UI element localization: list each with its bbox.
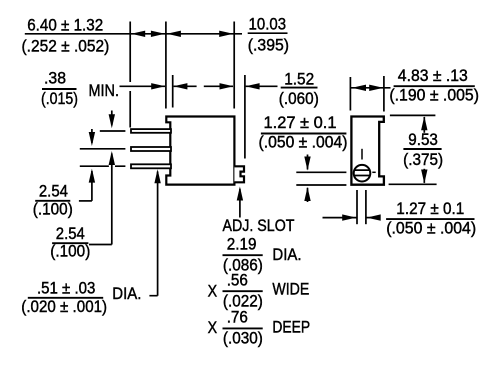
svg-text:(.030): (.030) — [223, 329, 263, 348]
wire 2.54 lower leader elbow — [89, 244, 112, 246]
wire .51 fraction bar — [28, 297, 103, 299]
4.83 dim right arrow — [369, 85, 383, 91]
wire 9.53 up-arrow tail — [423, 117, 425, 133]
lead 1 (top) — [131, 129, 171, 133]
2.54 lower dim up arrow — [109, 151, 115, 165]
.51 DIA leader arrow — [154, 169, 160, 183]
wire lower 2.54 fraction bar — [52, 242, 88, 244]
svg-text:10.03: 10.03 — [249, 15, 287, 34]
2.54 upper dim up arrow — [89, 169, 95, 183]
svg-text:6.40 ± 1.32: 6.40 ± 1.32 — [27, 16, 103, 35]
wire dim row2 (".38 MIN." line to B) — [120, 85, 166, 87]
svg-text:MIN.: MIN. — [89, 81, 120, 100]
node ext line A (lead end plane) — [129, 22, 131, 128]
svg-text:2.54: 2.54 — [56, 224, 85, 243]
svg-text:9.53: 9.53 — [408, 130, 438, 149]
svg-text:(.395): (.395) — [248, 36, 289, 55]
node ext line B (body left plane) — [165, 22, 167, 109]
side view body outline — [166, 117, 234, 185]
svg-text:DIA.: DIA. — [272, 245, 301, 264]
svg-text:(.252 ± .052): (.252 ± .052) — [22, 37, 110, 56]
10.03 dim right arrow — [219, 31, 233, 37]
svg-text:X: X — [208, 282, 218, 301]
svg-text:X: X — [208, 318, 218, 337]
wire .51 DIA leader — [149, 172, 157, 296]
wire bottom 1.27 fraction bar — [386, 218, 474, 220]
10.03 dim left arrow — [167, 31, 181, 37]
top 1.27 down arrow — [304, 157, 310, 171]
wire 9.53 bottom ext line — [389, 183, 437, 185]
wire 4.83 dim line — [351, 87, 391, 89]
wire dim row1 line (6.40 bar + dim line to C) — [25, 33, 242, 35]
svg-text:DIA.: DIA. — [112, 284, 141, 303]
wire .76 fraction bar — [223, 327, 263, 329]
node 4.83 left ext line — [349, 77, 351, 111]
end view body outline — [351, 117, 384, 185]
wire top 1.27 down-arrow tail — [307, 155, 309, 170]
svg-text:(.015): (.015) — [41, 89, 78, 108]
svg-text:(.050 ± .004): (.050 ± .004) — [259, 133, 348, 152]
wire 2.54 lower arrow pair (x=111.8) — [111, 111, 113, 245]
1.52 dim right arrow — [246, 83, 260, 89]
svg-text:(.100): (.100) — [33, 200, 73, 219]
svg-text:(.190 ± .005): (.190 ± .005) — [389, 86, 479, 105]
.38 dim left arrow — [151, 83, 165, 89]
6.40 dim right arrow — [151, 31, 165, 37]
wire 2.54 upper arrow pair (x=91.9) — [91, 129, 93, 201]
wire 1.52 right arrow tail — [246, 85, 278, 87]
arrowheads row1: 6.40 dim left arrow — [131, 31, 145, 37]
node ext line D (adj end plane) — [244, 75, 246, 159]
wire lead2 centerline dash — [80, 148, 126, 150]
wire 2.19 fraction bar — [223, 254, 263, 256]
wire slot depth ext line upper — [296, 171, 346, 173]
svg-text:.51 ± .03: .51 ± .03 — [37, 279, 96, 298]
wire 2.54 upper leader elbow — [79, 200, 92, 202]
4.83 dim left arrow — [352, 85, 366, 91]
svg-text:ADJ. SLOT: ADJ. SLOT — [223, 216, 295, 235]
svg-text:4.83 ± .13: 4.83 ± .13 — [398, 66, 468, 85]
svg-text:(.050 ± .004): (.050 ± .004) — [386, 219, 476, 238]
svg-text:(.060): (.060) — [279, 89, 319, 108]
wire 1.52 fraction bar — [281, 87, 318, 89]
wire lead3 centerline dash — [80, 165, 126, 167]
node ext line E (lead shoulder plane) — [172, 75, 174, 108]
1.52 dim left arrow — [220, 83, 234, 89]
centerline dash right of screw — [372, 171, 375, 173]
wire top 1.27 fraction bar — [261, 133, 347, 135]
.38 dim right arrow — [173, 83, 187, 89]
wire ADJ. SLOT leader — [239, 189, 241, 218]
wire bottom 1.27 left arrow tail — [323, 217, 357, 219]
bottom 1.27 right arrow — [367, 214, 381, 220]
wire lead1 centerline dash — [100, 130, 126, 132]
svg-text:1.52: 1.52 — [284, 70, 314, 89]
wire top 1.27 up-arrow tail — [307, 188, 309, 202]
wire slot depth ext line lower — [296, 184, 346, 186]
2.54 upper dim down arrow — [89, 132, 95, 146]
top 1.27 up arrow — [304, 187, 310, 201]
wire .56 fraction bar — [223, 290, 263, 292]
svg-text:2.19: 2.19 — [227, 235, 257, 254]
svg-text:2.54: 2.54 — [39, 182, 68, 201]
node 4.83 right ext line — [383, 76, 385, 112]
svg-text:DEEP: DEEP — [272, 318, 310, 337]
wire .38 fraction bar — [42, 88, 77, 90]
svg-text:(.100): (.100) — [50, 242, 90, 261]
wire bottom 1.27 right arrow tail — [366, 217, 380, 219]
wire 9.53 down-arrow tail — [423, 169, 425, 183]
node slot width left ext line — [356, 190, 358, 224]
svg-text:1.27 ± 0.1: 1.27 ± 0.1 — [264, 113, 337, 132]
ADJ. SLOT leader arrow — [237, 187, 243, 201]
lead 3 (bottom) — [131, 164, 171, 168]
wire 4.83 fraction bar — [394, 85, 475, 87]
wire upper 2.54 fraction bar — [35, 200, 70, 202]
svg-text:WIDE: WIDE — [272, 280, 309, 299]
9.53 down arrow — [421, 170, 427, 184]
node ext line C (body right plane) — [233, 22, 235, 109]
svg-text:.38: .38 — [44, 69, 66, 88]
lead 2 (middle) — [131, 147, 171, 151]
svg-text:(.375): (.375) — [403, 150, 443, 169]
wire .38 right arrow tail — [174, 85, 197, 87]
svg-text:(.020 ± .001): (.020 ± .001) — [21, 297, 107, 316]
centerline tick above screw — [361, 149, 363, 160]
svg-text:1.27 ± 0.1: 1.27 ± 0.1 — [396, 199, 464, 218]
wire 1.52 left arrow tail — [204, 85, 233, 87]
adjustment screw head circle — [354, 165, 371, 182]
9.53 up arrow — [421, 116, 427, 130]
adj screw end protrusion (side view) — [234, 166, 244, 182]
node slot width right ext line — [365, 190, 367, 224]
2.54 lower dim down arrow — [109, 114, 115, 128]
wire 9.53 fraction bar — [403, 148, 441, 150]
wire 9.53 top ext line — [390, 114, 436, 116]
bottom 1.27 left arrow — [342, 214, 356, 220]
svg-text:.76: .76 — [227, 308, 248, 327]
wire 10.03 fraction bar — [248, 32, 288, 34]
svg-text:.56: .56 — [227, 271, 248, 290]
